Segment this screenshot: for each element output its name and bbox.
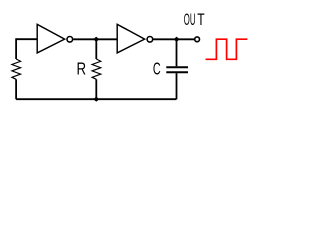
inverter 1 bbox=[37, 24, 64, 53]
wire resistor R bottom lead bbox=[95, 79, 97, 99]
svg-text:T: T bbox=[197, 11, 204, 29]
wire node B to output terminal bbox=[177, 38, 195, 40]
resistor R1 (left, unlabeled) bbox=[12, 59, 21, 79]
wire inverter 1 output to node A bbox=[73, 38, 96, 40]
output terminal bubble bbox=[195, 37, 200, 42]
capacitor C top plate bbox=[166, 66, 188, 68]
wire bottom rail bbox=[16, 98, 176, 100]
inverter 2 bbox=[117, 24, 144, 53]
inverter 1 output bubble bbox=[67, 37, 73, 43]
square wave output symbol bbox=[206, 39, 248, 59]
wire feedback input to inverter 1 bbox=[16, 38, 37, 40]
wire left vertical lead top bbox=[15, 38, 17, 59]
inverter 2 output bubble bbox=[147, 37, 153, 43]
wire capacitor C bottom lead bbox=[176, 73, 178, 99]
node A junction dot bbox=[94, 37, 99, 42]
wire node A down to resistor R bbox=[95, 39, 97, 59]
wire left vertical lead bottom bbox=[15, 79, 17, 99]
svg-text:R: R bbox=[77, 59, 87, 79]
resistor R bbox=[92, 59, 101, 79]
junction bottom rail / resistor R bbox=[94, 97, 98, 102]
node B junction dot bbox=[174, 37, 179, 42]
svg-text:OU: OU bbox=[184, 11, 196, 29]
wire node A to inverter 2 input bbox=[96, 38, 117, 40]
capacitor C bottom plate bbox=[166, 71, 188, 73]
svg-text:C: C bbox=[153, 59, 161, 79]
wire inverter 2 output to node B bbox=[153, 38, 176, 40]
wire node B down to capacitor C bbox=[176, 39, 178, 66]
